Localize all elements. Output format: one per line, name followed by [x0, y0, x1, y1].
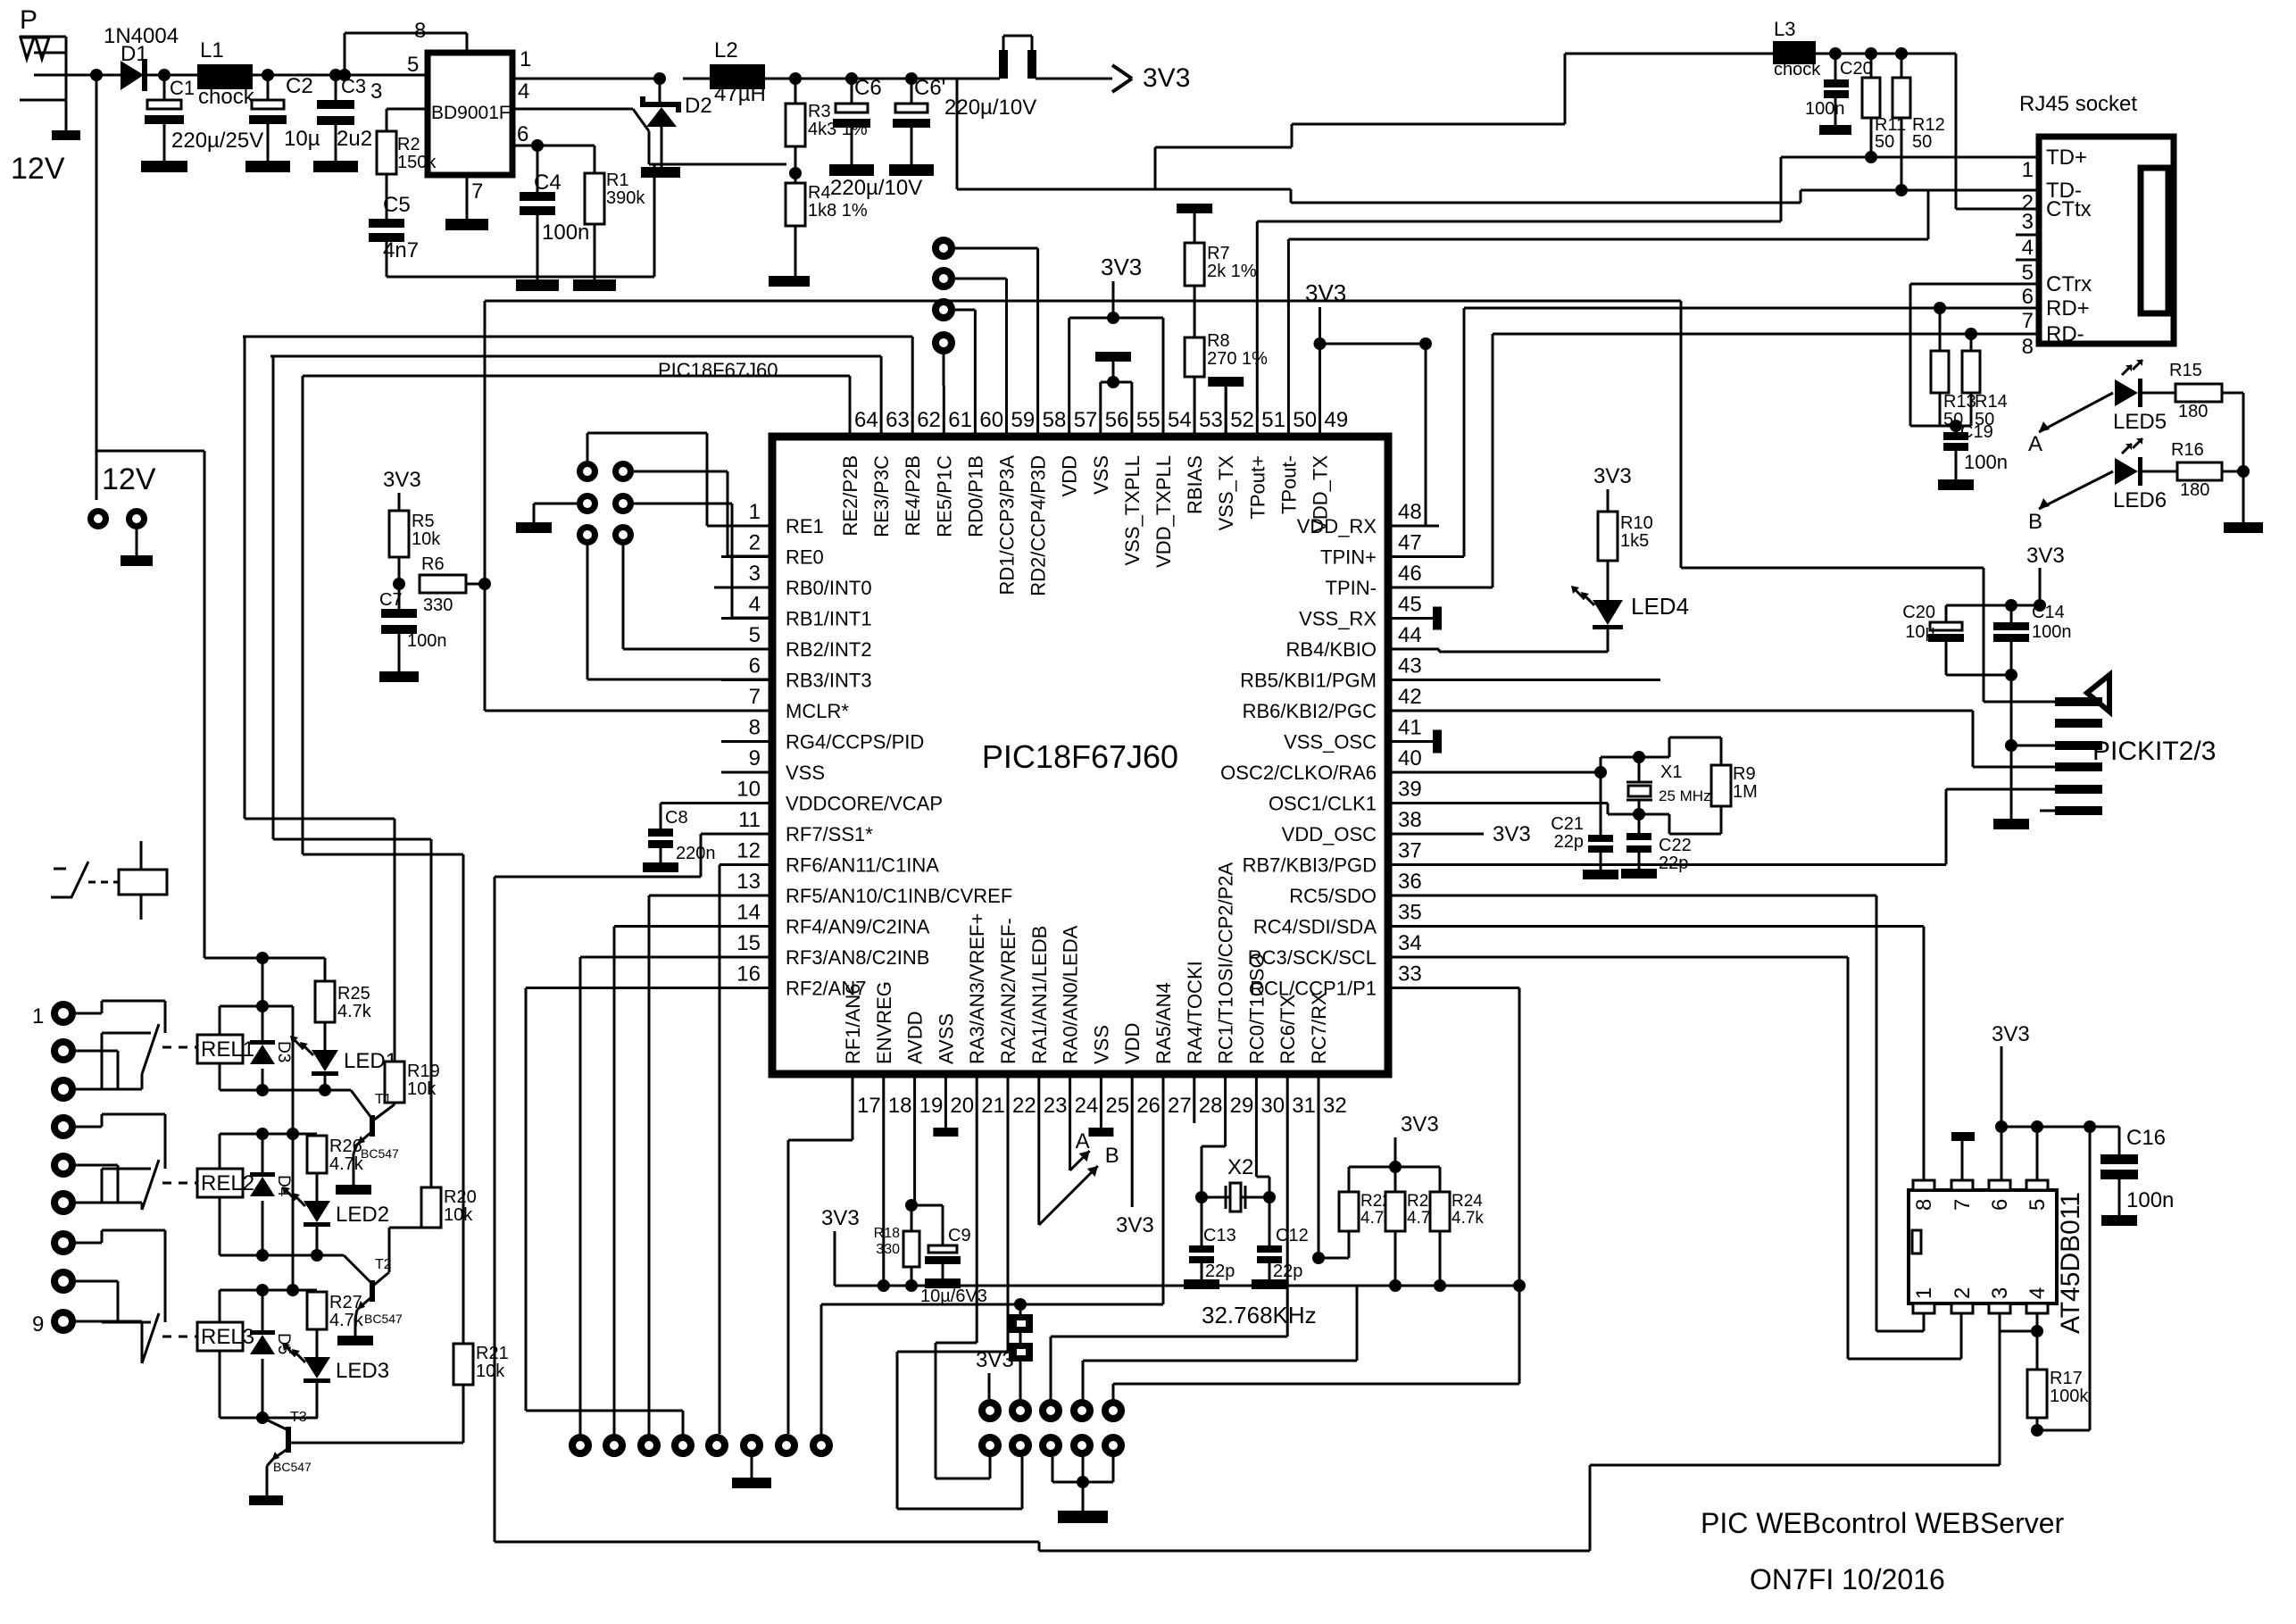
svg-text:16: 16 — [736, 962, 761, 987]
svg-text:VSS: VSS — [786, 762, 825, 784]
svg-text:61: 61 — [948, 408, 972, 432]
svg-text:50: 50 — [1293, 408, 1317, 432]
svg-text:RB5/KBI1/PGM: RB5/KBI1/PGM — [1240, 670, 1377, 692]
svg-text:ENVREG: ENVREG — [873, 981, 895, 1064]
svg-text:BC547: BC547 — [361, 1146, 399, 1161]
svg-text:18: 18 — [888, 1094, 912, 1118]
svg-text:C6: C6 — [854, 76, 882, 100]
svg-text:RC0/T1OSO: RC0/T1OSO — [1245, 953, 1268, 1064]
svg-text:X1: X1 — [1660, 762, 1682, 782]
svg-text:100n: 100n — [1964, 451, 2008, 473]
svg-text:TPout-: TPout- — [1277, 455, 1300, 514]
svg-text:T2: T2 — [375, 1257, 392, 1272]
svg-text:6: 6 — [517, 122, 528, 146]
svg-text:150k: 150k — [397, 153, 437, 172]
svg-text:RB0/INT0: RB0/INT0 — [786, 577, 872, 599]
svg-text:AVDD: AVDD — [904, 1012, 927, 1065]
svg-text:1: 1 — [1912, 1287, 1936, 1299]
svg-text:RC6/TX: RC6/TX — [1277, 994, 1299, 1064]
svg-text:VDD: VDD — [1059, 455, 1081, 496]
svg-text:OSC2/CLKO/RA6: OSC2/CLKO/RA6 — [1220, 762, 1377, 784]
svg-text:RE3/P3C: RE3/P3C — [870, 455, 893, 537]
svg-text:22p: 22p — [1205, 1262, 1235, 1281]
svg-text:25: 25 — [1105, 1094, 1129, 1118]
svg-text:R1: R1 — [606, 171, 629, 190]
svg-text:3V3: 3V3 — [1101, 254, 1142, 280]
svg-text:3: 3 — [749, 562, 761, 586]
svg-text:35: 35 — [1398, 901, 1422, 925]
svg-text:51: 51 — [1261, 408, 1285, 432]
svg-text:RE0: RE0 — [786, 546, 824, 569]
svg-text:RB7/KBI3/PGD: RB7/KBI3/PGD — [1243, 854, 1377, 877]
svg-text:LED3: LED3 — [336, 1359, 389, 1383]
svg-text:VSS: VSS — [1090, 1025, 1112, 1064]
svg-text:RA3/AN3/VREF+: RA3/AN3/VREF+ — [966, 913, 988, 1064]
svg-text:BC547: BC547 — [273, 1460, 312, 1474]
svg-text:R27: R27 — [329, 1293, 362, 1312]
svg-text:B: B — [2028, 510, 2042, 534]
svg-text:6: 6 — [1988, 1199, 2012, 1211]
svg-text:270 1%: 270 1% — [1207, 349, 1268, 369]
svg-text:C16: C16 — [2126, 1126, 2166, 1150]
svg-text:39: 39 — [1398, 778, 1422, 802]
svg-text:RG4/CCPS/PID: RG4/CCPS/PID — [786, 731, 924, 754]
svg-text:RB2/INT2: RB2/INT2 — [786, 638, 872, 661]
svg-text:54: 54 — [1168, 408, 1192, 432]
svg-text:100n: 100n — [542, 221, 589, 245]
svg-text:12: 12 — [736, 839, 761, 863]
svg-text:32: 32 — [1323, 1094, 1347, 1118]
svg-text:R20: R20 — [444, 1187, 477, 1207]
svg-text:3: 3 — [370, 79, 382, 104]
svg-text:40: 40 — [1398, 746, 1422, 770]
svg-text:63: 63 — [886, 408, 910, 432]
svg-text:55: 55 — [1136, 408, 1160, 432]
svg-text:VSS: VSS — [1090, 455, 1112, 495]
svg-text:3V3: 3V3 — [821, 1206, 860, 1230]
svg-text:RD-: RD- — [2046, 322, 2084, 346]
svg-text:PIC WEBcontrol WEBServer: PIC WEBcontrol WEBServer — [1701, 1507, 2065, 1539]
svg-text:R2: R2 — [397, 135, 420, 154]
svg-text:390k: 390k — [606, 188, 645, 208]
svg-text:R3: R3 — [808, 102, 831, 121]
svg-text:chock: chock — [1774, 60, 1821, 79]
svg-text:RD0/P1B: RD0/P1B — [964, 455, 986, 537]
svg-text:100n: 100n — [2032, 622, 2072, 642]
svg-text:2u2: 2u2 — [337, 127, 372, 151]
svg-text:C20: C20 — [1902, 603, 1935, 622]
svg-text:50: 50 — [1875, 132, 1894, 152]
svg-text:10k: 10k — [412, 529, 441, 549]
svg-text:REL3: REL3 — [201, 1325, 254, 1349]
svg-text:32.768KHz: 32.768KHz — [1202, 1302, 1317, 1328]
svg-text:TD+: TD+ — [2046, 146, 2087, 170]
svg-text:C9: C9 — [948, 1226, 971, 1245]
svg-text:7: 7 — [471, 179, 483, 204]
svg-text:180: 180 — [2178, 402, 2208, 421]
svg-text:41: 41 — [1398, 716, 1422, 740]
svg-text:VSS_OSC: VSS_OSC — [1284, 731, 1377, 754]
svg-text:RA4/TOCKI: RA4/TOCKI — [1184, 961, 1206, 1064]
svg-text:ON7FI 10/2016: ON7FI 10/2016 — [1750, 1563, 1945, 1595]
svg-text:100n: 100n — [1805, 99, 1845, 119]
svg-text:19: 19 — [919, 1094, 944, 1118]
svg-text:5: 5 — [2022, 261, 2034, 285]
svg-text:6: 6 — [2022, 285, 2034, 309]
svg-text:50: 50 — [1912, 132, 1932, 152]
svg-text:C13: C13 — [1203, 1226, 1236, 1245]
svg-text:38: 38 — [1398, 808, 1422, 832]
svg-text:220n: 220n — [676, 844, 716, 863]
svg-text:R24: R24 — [1452, 1192, 1483, 1211]
svg-text:10µ: 10µ — [284, 127, 320, 151]
svg-text:24: 24 — [1075, 1094, 1099, 1118]
svg-text:1: 1 — [749, 500, 761, 524]
svg-text:10: 10 — [736, 778, 761, 802]
svg-text:R19: R19 — [407, 1062, 440, 1081]
svg-text:42: 42 — [1398, 685, 1422, 709]
svg-text:VDDCORE/VCAP: VDDCORE/VCAP — [786, 793, 943, 815]
svg-text:47µH: 47µH — [714, 82, 766, 106]
svg-text:RC7/RX: RC7/RX — [1308, 992, 1330, 1064]
svg-text:C14: C14 — [2032, 603, 2065, 622]
svg-text:R4: R4 — [808, 183, 831, 203]
svg-text:LED4: LED4 — [1631, 593, 1689, 620]
svg-text:46: 46 — [1398, 562, 1422, 586]
svg-text:RF6/AN11/C1INA: RF6/AN11/C1INA — [786, 854, 939, 877]
svg-text:10k: 10k — [444, 1205, 473, 1225]
svg-text:PIC18F67J60: PIC18F67J60 — [658, 359, 778, 381]
svg-text:5: 5 — [749, 623, 761, 647]
svg-text:TPIN+: TPIN+ — [1320, 546, 1377, 569]
svg-text:1M: 1M — [1733, 782, 1758, 802]
svg-text:59: 59 — [1011, 408, 1036, 432]
svg-text:R16: R16 — [2171, 440, 2204, 460]
svg-text:R10: R10 — [1620, 513, 1653, 533]
svg-text:L3: L3 — [1774, 18, 1795, 40]
svg-text:PIC18F67J60: PIC18F67J60 — [982, 738, 1178, 775]
svg-text:45: 45 — [1398, 593, 1422, 617]
svg-text:A: A — [2028, 432, 2042, 456]
svg-text:9: 9 — [32, 1312, 44, 1337]
svg-text:RB6/KBI2/PGC: RB6/KBI2/PGC — [1243, 700, 1377, 722]
svg-text:5: 5 — [407, 53, 419, 77]
svg-text:VSS_TXPLL: VSS_TXPLL — [1121, 455, 1144, 566]
svg-text:VDD_TX: VDD_TX — [1310, 455, 1332, 533]
svg-text:R9: R9 — [1733, 764, 1756, 784]
svg-text:CTtx: CTtx — [2046, 197, 2092, 221]
svg-text:25 MHz: 25 MHz — [1659, 787, 1711, 804]
svg-text:R26: R26 — [329, 1137, 362, 1156]
svg-text:100n: 100n — [2126, 1188, 2174, 1212]
svg-text:31: 31 — [1292, 1094, 1316, 1118]
svg-text:3V3: 3V3 — [1992, 1022, 2030, 1046]
svg-text:12V: 12V — [11, 152, 65, 186]
svg-text:R15: R15 — [2169, 361, 2202, 380]
svg-text:100k: 100k — [2050, 1387, 2089, 1406]
svg-text:36: 36 — [1398, 870, 1422, 894]
svg-text:43: 43 — [1398, 654, 1422, 679]
svg-text:2: 2 — [749, 531, 761, 555]
svg-text:1: 1 — [520, 47, 531, 71]
svg-text:LED6: LED6 — [2113, 488, 2167, 512]
svg-text:T1: T1 — [375, 1092, 392, 1107]
svg-text:7: 7 — [749, 685, 761, 709]
svg-text:REL1: REL1 — [201, 1037, 254, 1062]
svg-text:30: 30 — [1260, 1094, 1285, 1118]
svg-text:8: 8 — [2022, 335, 2034, 359]
svg-text:26: 26 — [1136, 1094, 1160, 1118]
svg-text:REL2: REL2 — [201, 1171, 254, 1195]
svg-text:34: 34 — [1398, 931, 1422, 955]
svg-text:11: 11 — [738, 808, 761, 832]
svg-text:RC4/SDI/SDA: RC4/SDI/SDA — [1253, 916, 1377, 938]
svg-text:RA1/AN1/LEDB: RA1/AN1/LEDB — [1028, 926, 1051, 1064]
svg-text:VSS_RX: VSS_RX — [1299, 608, 1377, 630]
svg-text:RE1: RE1 — [786, 515, 824, 537]
svg-text:C2: C2 — [286, 74, 313, 98]
svg-text:RD2/CCP4/P3D: RD2/CCP4/P3D — [1027, 455, 1050, 596]
svg-text:48: 48 — [1398, 500, 1422, 524]
svg-text:RB3/INT3: RB3/INT3 — [786, 670, 872, 692]
svg-text:3V3: 3V3 — [2026, 544, 2065, 568]
svg-text:RE2/P2B: RE2/P2B — [839, 455, 861, 537]
svg-text:RF5/AN10/C1INB/CVREF: RF5/AN10/C1INB/CVREF — [786, 885, 1012, 907]
svg-text:44: 44 — [1398, 623, 1422, 647]
svg-text:RB4/KBIO: RB4/KBIO — [1286, 638, 1377, 661]
svg-text:R21: R21 — [476, 1344, 509, 1363]
svg-text:D3: D3 — [274, 1041, 293, 1062]
svg-text:P: P — [20, 5, 37, 35]
svg-text:47: 47 — [1398, 531, 1422, 555]
svg-text:BD9001F: BD9001F — [431, 103, 511, 123]
svg-text:3V3: 3V3 — [1305, 279, 1346, 306]
svg-text:R17: R17 — [2050, 1369, 2083, 1388]
svg-text:C8: C8 — [665, 808, 688, 828]
svg-text:56: 56 — [1105, 408, 1129, 432]
svg-text:100n: 100n — [407, 631, 447, 651]
svg-text:3V3: 3V3 — [1493, 822, 1531, 846]
svg-text:53: 53 — [1199, 408, 1223, 432]
svg-text:4: 4 — [2022, 236, 2034, 260]
svg-text:RA2/AN2/VREF-: RA2/AN2/VREF- — [997, 918, 1019, 1064]
svg-text:C20: C20 — [1840, 59, 1873, 79]
svg-text:1k8 1%: 1k8 1% — [808, 201, 868, 221]
svg-text:4.7k: 4.7k — [1452, 1209, 1484, 1228]
svg-text:20: 20 — [950, 1094, 974, 1118]
svg-text:8: 8 — [749, 716, 761, 740]
svg-text:2: 2 — [1951, 1287, 1975, 1299]
svg-text:7: 7 — [1951, 1199, 1975, 1211]
svg-text:RD+: RD+ — [2046, 296, 2090, 321]
svg-text:330: 330 — [423, 595, 453, 615]
svg-text:RF7/SS1*: RF7/SS1* — [786, 823, 873, 845]
svg-text:RBIAS: RBIAS — [1184, 455, 1206, 514]
svg-text:RF3/AN8/C2INB: RF3/AN8/C2INB — [786, 946, 929, 969]
svg-text:RE4/P2B: RE4/P2B — [902, 455, 924, 537]
svg-text:B: B — [1105, 1144, 1119, 1168]
svg-text:57: 57 — [1074, 408, 1098, 432]
svg-text:37: 37 — [1398, 839, 1422, 863]
svg-text:C21: C21 — [1551, 814, 1584, 834]
svg-text:TPIN-: TPIN- — [1326, 577, 1377, 599]
svg-text:VSS_TX: VSS_TX — [1215, 455, 1237, 531]
svg-text:C4: C4 — [534, 171, 562, 195]
svg-text:15: 15 — [736, 931, 761, 955]
svg-text:R14: R14 — [1975, 392, 2008, 412]
svg-text:4.7k: 4.7k — [329, 1154, 364, 1174]
svg-text:52: 52 — [1230, 408, 1254, 432]
svg-text:8: 8 — [414, 19, 426, 43]
svg-text:TPout+: TPout+ — [1246, 455, 1269, 520]
svg-text:3V3: 3V3 — [1143, 63, 1190, 93]
svg-text:3: 3 — [2022, 210, 2034, 234]
svg-text:LED5: LED5 — [2113, 410, 2167, 434]
svg-text:33: 33 — [1398, 962, 1422, 987]
svg-text:17: 17 — [857, 1094, 881, 1118]
svg-text:22p: 22p — [1554, 832, 1584, 852]
svg-text:BC547: BC547 — [364, 1312, 403, 1326]
svg-text:330: 330 — [876, 1242, 900, 1257]
svg-text:4: 4 — [2026, 1287, 2050, 1299]
svg-text:3V3: 3V3 — [1401, 1112, 1439, 1137]
svg-text:27: 27 — [1168, 1094, 1192, 1118]
svg-text:C22: C22 — [1659, 836, 1692, 855]
svg-text:RD1/CCP3/P3A: RD1/CCP3/P3A — [996, 455, 1019, 595]
svg-text:58: 58 — [1043, 408, 1067, 432]
svg-text:VDD: VDD — [1121, 1023, 1144, 1064]
svg-text:220µ/25V: 220µ/25V — [171, 129, 263, 153]
svg-text:PICKIT2/3: PICKIT2/3 — [2092, 737, 2216, 766]
svg-text:3: 3 — [1988, 1287, 2012, 1299]
svg-text:9: 9 — [749, 746, 761, 770]
svg-text:28: 28 — [1199, 1094, 1223, 1118]
svg-text:5: 5 — [2026, 1199, 2050, 1211]
svg-text:R8: R8 — [1207, 331, 1230, 351]
svg-text:R25: R25 — [337, 984, 370, 1004]
svg-text:C1: C1 — [170, 77, 195, 99]
svg-text:RJ45 socket: RJ45 socket — [2019, 92, 2137, 116]
svg-text:OSC1/CLK1: OSC1/CLK1 — [1269, 793, 1377, 815]
svg-text:RE5/P1C: RE5/P1C — [933, 455, 955, 537]
svg-text:8: 8 — [1912, 1199, 1936, 1211]
svg-text:220µ/10V: 220µ/10V — [830, 176, 922, 200]
svg-text:2k 1%: 2k 1% — [1207, 262, 1257, 281]
svg-text:49: 49 — [1325, 408, 1349, 432]
svg-text:C5: C5 — [383, 193, 411, 217]
svg-text:chock: chock — [198, 85, 255, 109]
svg-text:RC1/T1OSI/CCP2/P2A: RC1/T1OSI/CCP2/P2A — [1215, 862, 1237, 1064]
svg-text:R7: R7 — [1207, 244, 1230, 263]
svg-text:C12: C12 — [1276, 1226, 1309, 1245]
svg-text:C6': C6' — [914, 76, 945, 100]
svg-text:62: 62 — [917, 408, 941, 432]
svg-text:L1: L1 — [200, 38, 224, 62]
svg-text:1: 1 — [32, 1004, 44, 1029]
svg-text:10µ: 10µ — [1905, 622, 1935, 642]
svg-text:6: 6 — [749, 654, 761, 679]
svg-text:22p: 22p — [1659, 854, 1688, 873]
svg-text:23: 23 — [1044, 1094, 1068, 1118]
svg-text:14: 14 — [736, 901, 761, 925]
svg-text:3V3: 3V3 — [1116, 1213, 1154, 1237]
svg-text:MCLR*: MCLR* — [786, 700, 849, 722]
svg-text:R18: R18 — [874, 1226, 900, 1241]
svg-text:RF4/AN9/C2INA: RF4/AN9/C2INA — [786, 916, 930, 938]
svg-text:T3: T3 — [290, 1410, 307, 1425]
svg-text:VDD_TXPLL: VDD_TXPLL — [1152, 455, 1175, 568]
svg-text:4n7: 4n7 — [383, 238, 419, 262]
svg-text:C7: C7 — [379, 590, 403, 610]
svg-text:3V3: 3V3 — [383, 468, 421, 492]
svg-text:10k: 10k — [476, 1362, 505, 1381]
svg-text:AVSS: AVSS — [935, 1013, 957, 1064]
svg-text:21: 21 — [981, 1094, 1005, 1118]
svg-text:RA0/AN0/LEDA: RA0/AN0/LEDA — [1060, 925, 1082, 1064]
svg-text:3V3: 3V3 — [1593, 464, 1632, 488]
svg-text:VDD_OSC: VDD_OSC — [1282, 823, 1377, 845]
svg-text:RA5/AN4: RA5/AN4 — [1152, 982, 1175, 1064]
svg-text:LED2: LED2 — [336, 1203, 389, 1227]
svg-text:A: A — [1076, 1129, 1090, 1153]
svg-text:RF1/AN6: RF1/AN6 — [842, 984, 864, 1064]
svg-text:D2: D2 — [685, 94, 712, 118]
svg-text:RB1/INT1: RB1/INT1 — [786, 608, 872, 630]
svg-text:L2: L2 — [714, 38, 738, 62]
svg-text:12V: 12V — [102, 462, 156, 496]
svg-text:4.7k: 4.7k — [329, 1311, 364, 1330]
svg-text:4: 4 — [518, 79, 529, 104]
svg-text:22: 22 — [1012, 1094, 1036, 1118]
svg-text:X2: X2 — [1227, 1155, 1253, 1179]
svg-text:7: 7 — [2022, 309, 2034, 333]
svg-text:R6: R6 — [421, 554, 445, 574]
svg-text:RC5/SDO: RC5/SDO — [1289, 885, 1377, 907]
svg-text:AT45DB011: AT45DB011 — [2056, 1192, 2085, 1334]
svg-text:60: 60 — [979, 408, 1003, 432]
svg-text:29: 29 — [1230, 1094, 1254, 1118]
svg-text:1: 1 — [2022, 158, 2034, 182]
svg-text:4: 4 — [749, 593, 761, 617]
svg-text:13: 13 — [736, 870, 761, 894]
svg-text:CTrx: CTrx — [2046, 272, 2092, 296]
svg-text:4.7k: 4.7k — [337, 1002, 372, 1021]
svg-text:64: 64 — [854, 408, 878, 432]
svg-text:1k5: 1k5 — [1620, 531, 1649, 551]
svg-text:R5: R5 — [412, 512, 435, 531]
svg-text:180: 180 — [2180, 480, 2209, 500]
